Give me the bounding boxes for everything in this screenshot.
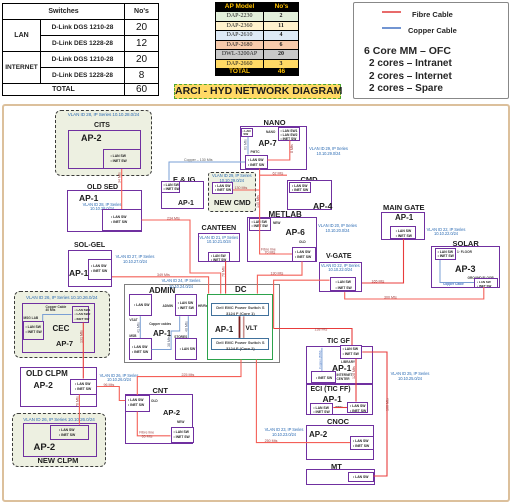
wire V-GATE to DC 345 bbox=[274, 280, 330, 328]
svg-text:131 Mts: 131 Mts bbox=[79, 330, 83, 343]
METLAB switch box NEW bbox=[249, 218, 272, 231]
E & IG bbox=[173, 175, 196, 184]
legend fibre line bbox=[382, 11, 401, 13]
wire CITS to OLD SED bbox=[121, 169, 123, 209]
wire copper NANO internal bbox=[247, 137, 249, 155]
svg-text:76 Mts: 76 Mts bbox=[76, 396, 80, 407]
wire copper SOLAR floors bbox=[440, 260, 474, 283]
wire NANO internal fibre bbox=[267, 141, 290, 161]
CEC inner box bbox=[22, 303, 95, 353]
NEW CLPM inner box bbox=[23, 423, 97, 457]
wire V-GATE to SOLAR bbox=[345, 287, 484, 299]
wire V-GATE to MAIN GATE bbox=[362, 239, 404, 283]
svg-text:100 Mts: 100 Mts bbox=[386, 398, 390, 411]
wire TIC GF to MT bbox=[362, 352, 387, 476]
svg-text:70 Mts: 70 Mts bbox=[222, 266, 226, 277]
CNT switch box OLD bbox=[125, 395, 150, 412]
wire NANO to CMD bbox=[260, 174, 287, 176]
CMD bbox=[301, 175, 318, 184]
svg-text:65 Mts: 65 Mts bbox=[142, 435, 153, 439]
wire METLAB to NANO bbox=[260, 169, 292, 254]
wire copper ADMIN msb bbox=[152, 316, 180, 349]
wire CANTEEN to DC bbox=[225, 261, 227, 293]
svg-text:140 Mts: 140 Mts bbox=[256, 195, 260, 208]
METLAB bbox=[269, 210, 302, 219]
DC dell core2 bbox=[211, 338, 269, 351]
wire copper NANO to E&IG bbox=[169, 162, 245, 181]
TIC GF inet box bbox=[311, 371, 336, 383]
svg-text:165 Mts: 165 Mts bbox=[372, 279, 385, 283]
SOLAR switch box 1F bbox=[435, 248, 456, 260]
wire OLD CLPM to CNT bbox=[97, 387, 125, 401]
CITS zone bbox=[55, 110, 152, 176]
wire ECI internal bbox=[333, 407, 347, 409]
wire OLD SED to DC bbox=[142, 220, 221, 294]
CANTEEN switch box bbox=[208, 252, 230, 262]
svg-text:250 Mts: 250 Mts bbox=[265, 439, 278, 443]
CMD switch box bbox=[289, 182, 311, 193]
svg-text:61 Mts: 61 Mts bbox=[243, 139, 247, 150]
svg-text:8 Mts: 8 Mts bbox=[290, 144, 294, 153]
wire DC to TIC GF bbox=[274, 329, 353, 346]
MSG LAB switch box bbox=[23, 321, 45, 340]
ECI switch box L bbox=[310, 403, 333, 415]
SOLAR bbox=[453, 239, 479, 248]
svg-text:138 Mts: 138 Mts bbox=[315, 328, 328, 332]
svg-text:Copper (80M): Copper (80M) bbox=[318, 350, 322, 369]
METLAB switch box OLD bbox=[292, 247, 316, 262]
legend panel bbox=[353, 2, 509, 99]
MT bbox=[331, 462, 342, 471]
wire copper ADMIN vsat bbox=[139, 316, 141, 338]
TIC GF switch box bbox=[340, 345, 363, 359]
ADMIN box BR bbox=[175, 338, 197, 360]
SOL-GEL switch box bbox=[88, 259, 112, 281]
title banner bbox=[174, 84, 341, 99]
wire OLD CLPM to NEW CLPM bbox=[78, 395, 80, 425]
wire NEW CMD branch bbox=[233, 189, 260, 191]
svg-text:62 Mts: 62 Mts bbox=[273, 171, 284, 175]
wire TIC GF to ECI bbox=[355, 359, 357, 402]
CITS AP-2 box bbox=[68, 130, 141, 169]
main diagram frame bbox=[2, 104, 510, 502]
CNOC bbox=[327, 417, 349, 426]
svg-text:225 Mts: 225 Mts bbox=[182, 373, 195, 377]
svg-text:40 Mts: 40 Mts bbox=[184, 321, 188, 332]
MAIN GATE bbox=[383, 203, 425, 212]
svg-text:130 Mts: 130 Mts bbox=[235, 186, 248, 190]
wire copper TIC GF bbox=[321, 348, 323, 371]
wire CNT internal bbox=[137, 412, 170, 436]
ADMIN outer bbox=[124, 284, 280, 363]
svg-text:349 Mts: 349 Mts bbox=[157, 273, 170, 277]
OLD CLPM bbox=[20, 367, 97, 407]
svg-text:Copper – 130 Mts: Copper – 130 Mts bbox=[184, 158, 213, 162]
CEC switch box bbox=[72, 306, 90, 323]
CANTEEN bbox=[202, 223, 237, 232]
switches table bbox=[2, 3, 159, 96]
E&IG switch box bbox=[161, 181, 181, 193]
OLD SED switch box bbox=[102, 209, 142, 231]
svg-text:96 Mts: 96 Mts bbox=[104, 383, 115, 387]
CEC zone bbox=[14, 291, 111, 358]
NEW CMD zone bbox=[208, 172, 257, 212]
OLD CLPM switch box bbox=[70, 379, 97, 395]
svg-text:38 Mts: 38 Mts bbox=[167, 336, 171, 347]
TIC GF bbox=[327, 338, 350, 345]
ADMIN box TR bbox=[175, 294, 197, 317]
NANO bbox=[264, 118, 286, 127]
svg-text:234 Mts: 234 Mts bbox=[167, 216, 180, 220]
CNT bbox=[153, 386, 168, 395]
DC bbox=[235, 285, 247, 294]
OLD SED bbox=[87, 184, 118, 191]
svg-text:130 Mts: 130 Mts bbox=[271, 271, 284, 275]
wire DC VLT links bbox=[239, 316, 241, 338]
svg-text:300 Mts: 300 Mts bbox=[384, 296, 397, 300]
V-GATE bbox=[326, 253, 352, 260]
wire CEC to OLD CLPM bbox=[82, 323, 84, 379]
legend copper line bbox=[382, 27, 401, 29]
AP model table bbox=[215, 2, 299, 76]
wire DC to CNT bbox=[137, 360, 241, 396]
ADMIN box BL bbox=[129, 338, 152, 360]
NANO small box bbox=[241, 128, 254, 138]
wire copper ADMIN stores bbox=[187, 316, 189, 338]
ECI (TIC FF) bbox=[306, 384, 373, 415]
ECI switch box R bbox=[347, 402, 368, 414]
CITS switch box bbox=[103, 149, 141, 169]
SOL-GEL bbox=[74, 242, 105, 249]
V-GATE switch box bbox=[330, 277, 356, 291]
CNOC switch box bbox=[350, 436, 374, 451]
NEW CMD switch box bbox=[212, 182, 233, 194]
NEW CLPM switch box bbox=[50, 425, 89, 441]
wire SOL-GEL to DC bbox=[112, 277, 209, 294]
NANO PMTC switch box bbox=[245, 155, 268, 169]
wire copper CEC msglab bbox=[43, 315, 72, 322]
wire METLAB to DC bbox=[257, 261, 302, 293]
svg-text:34 Mts: 34 Mts bbox=[118, 172, 122, 183]
svg-text:70 Mts: 70 Mts bbox=[265, 250, 276, 254]
CNT switch box NEW bbox=[171, 427, 195, 443]
SOLAR switch box GF bbox=[474, 278, 498, 288]
NEW CLPM zone bbox=[12, 413, 106, 467]
svg-text:41 Mts: 41 Mts bbox=[136, 322, 140, 333]
svg-text:128 Mts: 128 Mts bbox=[352, 366, 356, 379]
NANO switch box 3 bbox=[278, 127, 301, 141]
wire DC to CNOC bbox=[256, 360, 350, 443]
MAIN GATE switch box bbox=[390, 226, 416, 239]
ADMIN box TL bbox=[129, 294, 152, 316]
DC dell core1 bbox=[211, 303, 269, 316]
MT switch box bbox=[348, 472, 374, 482]
